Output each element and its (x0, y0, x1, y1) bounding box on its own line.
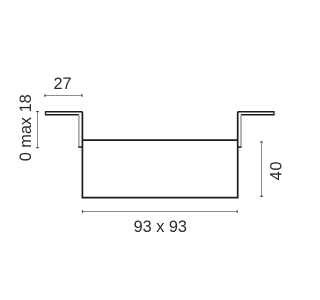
left trim flange top surface (45, 111, 82, 115)
right trim flange top surface (238, 111, 275, 115)
svg-text:93 x 93: 93 x 93 (134, 218, 187, 236)
dimension line 27 (45, 94, 83, 97)
left trim flange vertical leg (78, 115, 82, 147)
svg-text:0 max 18: 0 max 18 (17, 94, 35, 161)
housing box body (82, 112, 237, 198)
dimension line 0 max 18 (36, 111, 39, 148)
right trim flange vertical leg (238, 115, 242, 147)
svg-text:27: 27 (53, 75, 71, 93)
svg-text:40: 40 (268, 161, 286, 181)
dimension line 93 x 93 (82, 210, 237, 213)
dimension line 40 (260, 142, 263, 197)
